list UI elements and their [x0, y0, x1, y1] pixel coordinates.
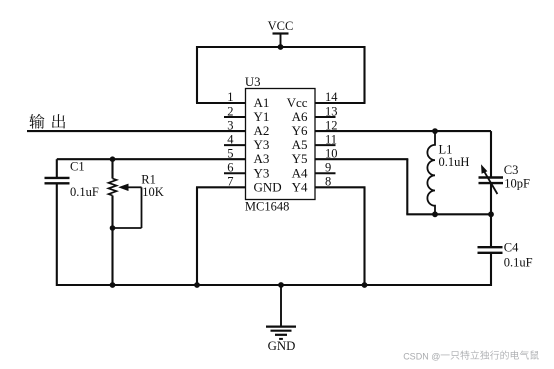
svg-text:Vcc: Vcc — [287, 95, 308, 110]
svg-text:11: 11 — [325, 132, 337, 146]
svg-text:Y3: Y3 — [254, 137, 270, 152]
svg-text:10K: 10K — [142, 185, 164, 199]
capacitor C1 — [45, 177, 70, 179]
svg-text:9: 9 — [325, 160, 331, 174]
pin 11 stub — [315, 144, 336, 146]
power symbol VCC — [273, 32, 289, 34]
wire pin 10 down — [406, 159, 408, 214]
pin 6 stub — [224, 172, 246, 174]
svg-text:Y1: Y1 — [254, 109, 270, 124]
svg-text:1: 1 — [227, 90, 233, 104]
C3 adjust arrow — [484, 172, 497, 195]
svg-text:A6: A6 — [292, 109, 308, 124]
R1 wiper loop wire — [141, 187, 143, 228]
svg-text:A3: A3 — [254, 151, 270, 166]
junction L1 top — [432, 128, 438, 134]
junction R1 to ground rail — [110, 282, 116, 288]
svg-text:Y5: Y5 — [292, 151, 308, 166]
op-amp-style IC body U3 MC1648 — [246, 89, 316, 200]
svg-text:2: 2 — [227, 104, 233, 118]
junction L1 bottom — [432, 211, 438, 217]
wire C4 bottom lead — [490, 252, 492, 286]
wire pin 7 down to ground rail — [196, 187, 198, 285]
wire pin 5 to C1/R1 — [57, 158, 246, 160]
svg-text:VCC: VCC — [268, 19, 294, 33]
ground symbol GND — [280, 285, 282, 327]
svg-text:C3: C3 — [504, 163, 519, 177]
junction R1 wiper tie — [110, 225, 116, 231]
wire bottom ground rail — [57, 284, 491, 286]
svg-text:A5: A5 — [292, 137, 308, 152]
svg-text:MC1648: MC1648 — [245, 200, 289, 214]
svg-text:5: 5 — [227, 146, 233, 160]
junction pin7 to ground rail — [194, 282, 200, 288]
svg-text:GND: GND — [254, 179, 282, 194]
wire pin 7 GND — [196, 186, 246, 188]
junction GND tap — [278, 282, 284, 288]
wire right rail C3 top — [490, 131, 492, 177]
svg-text:Y4: Y4 — [292, 179, 308, 194]
wire pin 3 output net — [27, 130, 246, 132]
wire pin 12 to tank — [315, 130, 491, 132]
svg-text:A2: A2 — [254, 123, 270, 138]
svg-text:4: 4 — [227, 132, 234, 146]
resistor R1 (potentiometer) zigzag — [109, 179, 117, 196]
svg-text:Y6: Y6 — [292, 123, 308, 138]
pin 13 stub — [315, 116, 336, 118]
svg-text:0.1uF: 0.1uF — [504, 255, 533, 269]
svg-text:CSDN @: CSDN @ — [403, 351, 440, 361]
wire C1 bottom lead — [56, 184, 58, 287]
junction pin8 to ground rail — [362, 282, 368, 288]
wire pin 8 — [315, 186, 366, 188]
wire C1 top lead — [56, 159, 58, 177]
wire pin 14 — [315, 102, 366, 104]
svg-text:12: 12 — [325, 118, 338, 132]
svg-text:0.1uH: 0.1uH — [439, 155, 470, 169]
junction VCC tap — [278, 44, 284, 50]
wire pin 1 — [196, 102, 246, 104]
wire pin 10 — [315, 158, 408, 160]
node label 输出 (output) — [29, 114, 44, 129]
pin 4 stub — [224, 144, 246, 146]
inductor L1 coil — [427, 132, 435, 215]
svg-text:14: 14 — [325, 90, 338, 104]
svg-text:U3: U3 — [245, 75, 261, 89]
pin 2 stub — [224, 116, 246, 118]
svg-text:3: 3 — [227, 118, 233, 132]
svg-text:10: 10 — [325, 146, 338, 160]
junction tank bottom / right rail — [488, 211, 494, 217]
wire pin 8 down to ground rail — [363, 187, 365, 285]
wire left rail to pin 1 — [196, 46, 198, 103]
svg-text:13: 13 — [325, 104, 338, 118]
svg-text:0.1uF: 0.1uF — [70, 185, 99, 199]
svg-text:C4: C4 — [504, 240, 519, 254]
wire top rail VCC net — [197, 46, 365, 48]
svg-text:A4: A4 — [292, 165, 308, 180]
svg-text:7: 7 — [227, 175, 233, 189]
svg-text:GND: GND — [268, 339, 296, 353]
svg-text:Y3: Y3 — [254, 165, 270, 180]
wire R1 top lead — [111, 159, 113, 178]
wire R1 bottom lead — [111, 196, 113, 287]
svg-text:6: 6 — [227, 160, 233, 174]
svg-text:C1: C1 — [70, 160, 85, 174]
svg-text:A1: A1 — [254, 95, 270, 110]
wire tank bottom — [406, 213, 491, 215]
capacitor C4 — [478, 246, 503, 248]
wire C3 bottom to C4 top — [490, 184, 492, 248]
svg-text:8: 8 — [325, 175, 331, 189]
capacitor C3 (variable) — [479, 176, 504, 178]
pin 9 stub — [315, 172, 336, 174]
wire right to pin 14 — [363, 46, 365, 103]
svg-text:10pF: 10pF — [504, 177, 530, 191]
junction pin5 net / R1 top — [110, 156, 116, 162]
R1 wiper arrow — [126, 186, 142, 188]
